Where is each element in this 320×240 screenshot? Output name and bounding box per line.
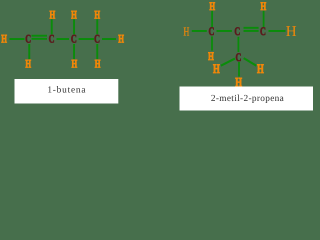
wire: double bond C2=C3 lower bbox=[244, 30, 259, 32]
svg-text:C: C bbox=[49, 34, 55, 46]
svg-text:C: C bbox=[209, 26, 215, 38]
wire: bond C1-H up bbox=[211, 11, 213, 27]
svg-text:H: H bbox=[183, 24, 189, 38]
wire: bond H-C1 bbox=[10, 38, 25, 40]
wire: bond C1-C2 bbox=[217, 30, 232, 32]
wire: bond C4-H down bbox=[96, 44, 98, 59]
svg-text:H: H bbox=[94, 9, 100, 21]
wire: bond C4-H right bbox=[102, 38, 116, 40]
svg-text:H: H bbox=[25, 58, 31, 70]
wire: bond C3-H down bbox=[73, 44, 75, 59]
wire: bond C3-H right bbox=[269, 30, 286, 32]
svg-text:2-metil-2-propena: 2-metil-2-propena bbox=[211, 94, 284, 104]
svg-text:H: H bbox=[50, 9, 56, 21]
wire: bond C4-H diagonal left bbox=[221, 59, 235, 66]
svg-text:H: H bbox=[209, 1, 215, 13]
wire: bond C1-H down bbox=[211, 36, 213, 50]
svg-text:1-butena: 1-butena bbox=[47, 86, 86, 96]
wire: double bond C1=C2 upper bbox=[32, 35, 48, 37]
svg-text:C: C bbox=[260, 26, 266, 38]
wire: bond C2-H up bbox=[51, 19, 53, 34]
wire: bond C3-C4 bbox=[79, 38, 95, 40]
svg-text:H: H bbox=[286, 24, 297, 40]
wire: bond C3-H up bbox=[263, 11, 265, 27]
wire: bond C4-H diagonal right bbox=[244, 58, 257, 66]
wire: bond C3-H up bbox=[73, 19, 75, 34]
svg-text:C: C bbox=[236, 52, 242, 64]
wire: bond C1-H down bbox=[28, 44, 30, 59]
wire: bond H-C1 bbox=[192, 30, 207, 32]
svg-text:H: H bbox=[95, 58, 101, 70]
wire: double bond C2=C3 upper bbox=[244, 27, 259, 29]
label box 1-butena bbox=[15, 79, 119, 104]
svg-text:H: H bbox=[1, 34, 7, 46]
svg-text:H: H bbox=[71, 9, 77, 21]
svg-text:C: C bbox=[25, 34, 31, 46]
wire: double bond C1=C2 lower bbox=[32, 38, 48, 40]
svg-text:C: C bbox=[71, 34, 77, 46]
svg-text:H: H bbox=[118, 34, 124, 46]
wire: bond C2-C3 bbox=[57, 38, 70, 40]
svg-text:H: H bbox=[257, 61, 264, 76]
svg-text:C: C bbox=[94, 34, 100, 46]
svg-text:H: H bbox=[72, 58, 78, 70]
wire: bond C4-H up bbox=[96, 19, 98, 34]
label box 2-metil-2-propena bbox=[180, 87, 314, 111]
svg-text:H: H bbox=[261, 1, 267, 13]
wire: bond C4-H down bbox=[238, 62, 240, 77]
wire: bond C2-C4 down bbox=[238, 37, 240, 52]
svg-text:C: C bbox=[234, 26, 240, 38]
svg-text:H: H bbox=[213, 61, 220, 76]
